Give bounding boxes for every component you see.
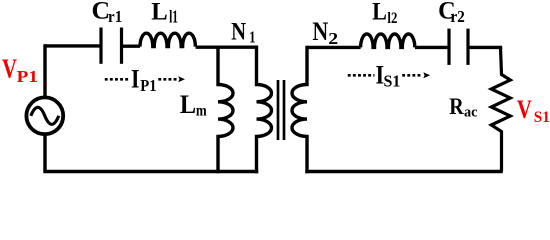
svg-text:2: 2 bbox=[328, 29, 338, 47]
svg-text:N: N bbox=[312, 19, 328, 47]
svg-text:C: C bbox=[92, 0, 111, 25]
svg-text:L: L bbox=[151, 0, 167, 26]
svg-text:1: 1 bbox=[249, 29, 255, 47]
svg-text:m: m bbox=[196, 102, 207, 120]
svg-text:V: V bbox=[517, 96, 532, 125]
svg-text:I: I bbox=[131, 66, 139, 94]
svg-text:R: R bbox=[449, 93, 464, 120]
svg-text:r1: r1 bbox=[108, 8, 122, 26]
svg-text:S1: S1 bbox=[534, 109, 550, 127]
svg-text:P1: P1 bbox=[17, 67, 38, 86]
svg-text:I: I bbox=[376, 61, 385, 90]
svg-text:N: N bbox=[231, 18, 246, 47]
svg-text:L: L bbox=[372, 0, 387, 26]
svg-text:ac: ac bbox=[464, 104, 478, 120]
svg-text:l2: l2 bbox=[387, 9, 397, 27]
svg-text:r2: r2 bbox=[450, 8, 465, 26]
svg-text:V: V bbox=[2, 54, 17, 85]
svg-text:P1: P1 bbox=[140, 77, 156, 95]
svg-text:L: L bbox=[180, 91, 196, 119]
svg-text:S1: S1 bbox=[384, 71, 401, 90]
svg-text:l1: l1 bbox=[169, 8, 178, 27]
